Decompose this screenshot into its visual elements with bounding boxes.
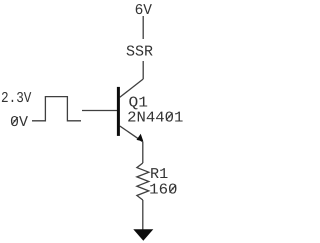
- wire SSR to collector: [142, 61, 144, 79]
- svg-text:2.3V: 2.3V: [1, 90, 31, 107]
- wire emitter diagonal of Q1: [120, 126, 143, 142]
- pulse waveform input source: [32, 97, 81, 121]
- wire emitter to resistor: [142, 142, 144, 163]
- wire base input: [82, 110, 118, 112]
- svg-text:0V: 0V: [10, 114, 28, 131]
- svg-text:SSR: SSR: [126, 44, 153, 61]
- wire collector diagonal of Q1: [120, 79, 143, 97]
- transistor Q1 base bar: [117, 87, 120, 136]
- slashed zero marks: [12, 113, 176, 193]
- output arrow (current direction): [133, 229, 153, 241]
- svg-text:6V: 6V: [135, 2, 152, 19]
- svg-text:160: 160: [149, 182, 177, 199]
- node 6V supply wire: [142, 16, 144, 39]
- transistor Q1 emitter arrowhead: [137, 134, 144, 142]
- wire resistor to output arrow: [142, 200, 144, 230]
- resistor R1 zigzag: [137, 163, 149, 200]
- svg-text:2N4401: 2N4401: [127, 110, 183, 127]
